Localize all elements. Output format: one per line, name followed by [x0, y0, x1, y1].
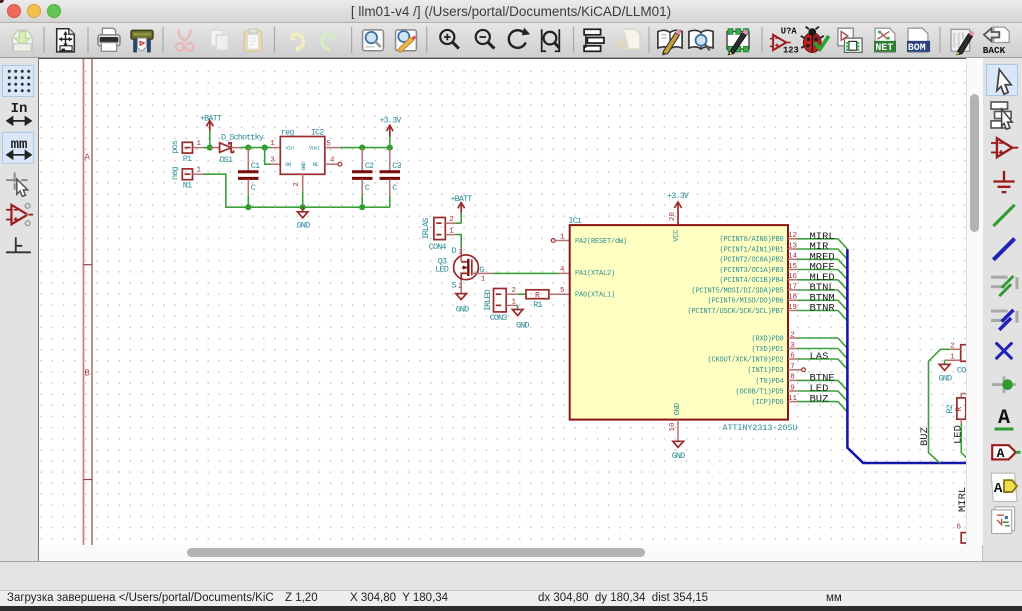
power +BATT (left) — [200, 113, 222, 147]
svg-text:C2: C2 — [365, 161, 374, 171]
capacitor C2 — [352, 148, 374, 195]
wire N1 to rail — [203, 174, 390, 207]
svg-text:(RXD)PD0: (RXD)PD0 — [751, 335, 783, 343]
IC1 pin 3 PD1 — [751, 342, 797, 354]
svg-text:VCC: VCC — [673, 230, 681, 242]
wire PB0 to bus — [798, 239, 848, 249]
svg-text:LAS: LAS — [810, 351, 829, 363]
svg-text:A: A — [994, 481, 1003, 497]
svg-text:1: 1 — [950, 354, 955, 362]
svg-text:S: S — [452, 281, 457, 291]
svg-text:A: A — [998, 407, 1011, 430]
IC1 pin 7 PD3 — [747, 363, 797, 375]
svg-text:P1: P1 — [183, 154, 192, 164]
sheet border tick 1 — [84, 264, 93, 266]
svg-text:GND: GND — [516, 320, 529, 330]
power +3.3V (top) — [379, 115, 402, 147]
svg-text:GND: GND — [674, 403, 682, 415]
svg-text:neg: neg — [170, 167, 180, 180]
svg-text:BOM: BOM — [908, 42, 926, 53]
svg-text:19: 19 — [788, 304, 797, 312]
svg-text:BUZ: BUZ — [919, 427, 931, 446]
right toolbar — [982, 58, 1022, 561]
svg-text:U?A: U?A — [781, 27, 798, 37]
svg-text:20: 20 — [669, 211, 677, 221]
svg-text:+BATT: +BATT — [200, 113, 222, 123]
ground symbol (CON5) — [939, 360, 952, 383]
svg-text:1: 1 — [197, 167, 202, 175]
microcontroller IC1 ATTINY2313 — [569, 216, 798, 433]
svg-text:18: 18 — [788, 294, 797, 302]
svg-text:(ICP)PD6: (ICP)PD6 — [751, 399, 783, 407]
svg-text:6: 6 — [790, 352, 795, 360]
svg-text:3: 3 — [270, 157, 275, 165]
wire C2 to rail — [361, 195, 363, 207]
svg-text:(INT1)PD3: (INT1)PD3 — [747, 367, 783, 375]
svg-text:B: B — [85, 369, 91, 379]
wire IC2 Vout — [340, 147, 390, 149]
connector N1 — [170, 167, 203, 191]
svg-text:1: 1 — [481, 275, 486, 283]
svg-text:1: 1 — [449, 228, 454, 236]
wire C1 to rail — [247, 195, 249, 207]
wire PD4 to bus — [798, 380, 848, 390]
IC1 pin1 reset stub — [551, 239, 569, 243]
scrollbars — [966, 58, 983, 545]
junction C1 top — [245, 145, 251, 151]
svg-text:DS1: DS1 — [220, 155, 233, 165]
wire R2 to bus (LED net) — [961, 424, 971, 463]
svg-text:(TXD)PD1: (TXD)PD1 — [751, 346, 783, 354]
IC1 pin 16 PB4 — [719, 273, 797, 285]
junction at P1/+BATT — [207, 145, 213, 151]
svg-text:5: 5 — [560, 287, 565, 295]
svg-text:1: 1 — [197, 140, 202, 148]
svg-text:C: C — [365, 183, 370, 193]
capacitor C1 — [238, 148, 260, 195]
svg-text:pos: pos — [170, 140, 180, 153]
svg-text:+3.3V: +3.3V — [379, 115, 402, 125]
canvas — [39, 59, 966, 546]
diode DS1 D_Schottky — [210, 133, 264, 165]
svg-text:3: 3 — [458, 249, 463, 257]
svg-text:reg: reg — [281, 127, 294, 137]
power +BATT (middle) — [450, 194, 472, 223]
capacitor C3 — [380, 148, 402, 196]
svg-text:(PCINT3/OC1A)PB3: (PCINT3/OC1A)PB3 — [719, 267, 783, 275]
resistor R2 — [945, 394, 966, 425]
IC1 pin 13 PB1 — [719, 242, 797, 254]
wire P1 to junction — [203, 147, 210, 149]
svg-text:GND: GND — [297, 220, 310, 230]
sheet border line outer — [83, 59, 85, 545]
svg-text:CON3: CON3 — [490, 313, 508, 323]
wire PB2 to bus — [798, 259, 848, 269]
regulator IC2 — [270, 127, 342, 191]
svg-text:1: 1 — [560, 233, 565, 241]
svg-text:(PCINT0/AIN0)PB0: (PCINT0/AIN0)PB0 — [719, 236, 783, 244]
svg-text:BUZ: BUZ — [810, 394, 829, 406]
junction rail C2 — [359, 204, 365, 210]
junction ON branch — [262, 145, 268, 151]
wire to IC2 ON pin — [265, 148, 271, 165]
wire CON5 pin2 to bus (BUZ net) — [929, 349, 950, 463]
svg-text:MIRL: MIRL — [957, 487, 966, 512]
svg-text:R1: R1 — [533, 300, 542, 310]
svg-text:ATTINY2313-20SU: ATTINY2313-20SU — [722, 423, 797, 433]
wire PB1 to bus — [798, 249, 848, 259]
sheet border tick 2 — [84, 479, 93, 481]
svg-text:14: 14 — [788, 253, 798, 261]
transistor Q3 — [435, 246, 486, 291]
svg-text:GND: GND — [672, 451, 685, 461]
svg-text:4: 4 — [330, 157, 335, 165]
svg-text:D: D — [452, 246, 457, 256]
svg-text:(PCINT1/AIN1)PB1: (PCINT1/AIN1)PB1 — [719, 246, 783, 254]
svg-text:(PCINT7/USCK/SCK/SCL)PB7: (PCINT7/USCK/SCK/SCL)PB7 — [687, 308, 783, 316]
ground symbol (IC1 GND) — [669, 420, 685, 461]
svg-text:13: 13 — [788, 242, 798, 250]
svg-text:GND: GND — [939, 374, 952, 384]
svg-text:11: 11 — [788, 395, 798, 403]
svg-text:12: 12 — [788, 232, 797, 240]
svg-text:2: 2 — [790, 331, 795, 339]
wire Q3 gate to IC1 PA1 — [479, 272, 494, 274]
svg-text:8: 8 — [790, 374, 795, 382]
junction rail GND — [300, 204, 306, 210]
svg-text:D_Schottky: D_Schottky — [221, 133, 264, 143]
svg-text:CON: CON — [957, 366, 966, 376]
resistor R1 — [526, 290, 549, 310]
left toolbar — [0, 58, 39, 561]
svg-text:(PCINT2/OC0A)PB2: (PCINT2/OC0A)PB2 — [719, 257, 783, 265]
svg-text:(OC0B/T1)PD5: (OC0B/T1)PD5 — [735, 388, 783, 396]
junction C2 top — [359, 145, 365, 151]
svg-text:(PCINT4/OC1B)PB4: (PCINT4/OC1B)PB4 — [719, 277, 783, 285]
svg-text:NET: NET — [875, 42, 893, 53]
svg-text:(PCINT6/MISO/DO)PB6: (PCINT6/MISO/DO)PB6 — [707, 298, 783, 306]
svg-text:R2: R2 — [945, 404, 955, 413]
wire IC2 GND down — [302, 191, 304, 207]
bus (blue) — [847, 249, 966, 463]
svg-text:In: In — [11, 101, 28, 117]
IC1 pin 15 PB3 — [719, 263, 797, 275]
connector P1 — [170, 140, 203, 164]
svg-text:16: 16 — [788, 273, 798, 281]
svg-text:10: 10 — [669, 422, 677, 432]
wire Q3 source down — [460, 280, 462, 294]
IC1 pin 11 PD6 — [751, 395, 797, 407]
svg-text:3: 3 — [790, 342, 795, 350]
wire PD0 to bus — [798, 338, 848, 348]
svg-text:LED: LED — [435, 265, 448, 275]
svg-text:9: 9 — [790, 384, 795, 392]
wire C3 to rail corner — [389, 196, 391, 207]
sheet border line inner — [91, 59, 93, 545]
svg-text:IRLAS: IRLAS — [421, 218, 431, 240]
wire PB6 to bus — [798, 300, 848, 310]
svg-text:R: R — [955, 407, 964, 412]
svg-text:ON: ON — [285, 161, 291, 168]
connector CON5 (right edge) — [945, 343, 971, 376]
svg-text:A: A — [85, 153, 91, 163]
status bars — [0, 561, 1022, 590]
svg-text:N1: N1 — [183, 181, 192, 191]
svg-text:2: 2 — [512, 287, 517, 295]
wire PD1 to bus — [798, 349, 848, 359]
svg-text:PA1(XTAL2): PA1(XTAL2) — [575, 270, 615, 278]
connector CON4 — [421, 216, 456, 252]
svg-text:(PCINT5/MOSI/DI/SDA)PB5: (PCINT5/MOSI/DI/SDA)PB5 — [691, 287, 783, 295]
IC1 pin 2 PD0 — [751, 331, 797, 343]
svg-text:2: 2 — [950, 343, 955, 351]
title bar — [0, 0, 1022, 23]
svg-text:GND: GND — [456, 305, 469, 315]
svg-text:Vin: Vin — [285, 145, 293, 152]
svg-text:2: 2 — [293, 182, 301, 187]
IC1 pin 8 PD4 — [755, 374, 797, 386]
ground symbol (Q3) — [456, 294, 469, 315]
top toolbar — [0, 23, 1022, 58]
wire CON4 pin1 to Q3 drain — [456, 235, 461, 247]
wire PB4 to bus — [798, 280, 848, 290]
svg-text:PA2(RESET/dW): PA2(RESET/dW) — [575, 238, 627, 246]
wire CON3 pin2 to R1 — [518, 293, 526, 295]
junction +3.3V — [387, 145, 393, 151]
wire PB5 to bus — [798, 290, 848, 300]
power +3.3V (IC1 VCC) — [667, 191, 690, 225]
IC1 pin 19 PB7 — [687, 304, 797, 316]
svg-text:(T0)PD4: (T0)PD4 — [755, 378, 783, 386]
svg-text:CON4: CON4 — [429, 242, 447, 252]
svg-text:2: 2 — [449, 216, 454, 224]
svg-text:123: 123 — [783, 45, 799, 55]
ground symbol (CON3) — [512, 305, 529, 330]
svg-text:+3.3V: +3.3V — [667, 191, 690, 201]
IC1 pin 17 PB5 — [691, 283, 797, 295]
wire CON4 pin2 — [456, 222, 461, 224]
wire R1 to IC1 PA0 — [549, 293, 570, 295]
svg-text:7: 7 — [790, 363, 795, 371]
svg-text:15: 15 — [788, 263, 798, 271]
no-connect stub PD3 — [798, 368, 806, 372]
wire PD5 to bus — [798, 391, 848, 401]
svg-text:IC2: IC2 — [311, 127, 324, 137]
wire PD2 to bus — [798, 359, 848, 369]
svg-text:4: 4 — [560, 266, 565, 274]
IC1 pin 18 PB6 — [707, 294, 797, 306]
svg-text:1: 1 — [512, 298, 517, 306]
svg-text:C: C — [251, 183, 256, 193]
wire PD6 to bus — [798, 402, 848, 412]
wire PB3 to bus — [798, 270, 848, 280]
wire DS1 to IC2 Vin — [240, 147, 271, 149]
svg-text:IC1: IC1 — [569, 216, 582, 226]
IC1 pin 6 PD2 — [707, 352, 797, 364]
connector fragment (bottom right) — [961, 533, 966, 543]
svg-text:BTNR: BTNR — [810, 303, 836, 315]
junction rail C1 — [245, 204, 251, 210]
svg-text:C1: C1 — [251, 161, 260, 171]
svg-text:Vout: Vout — [309, 145, 320, 152]
IC1 pin 14 PB2 — [719, 253, 797, 265]
connector CON3 — [483, 287, 518, 323]
svg-text:PA0(XTAL1): PA0(XTAL1) — [575, 292, 615, 300]
svg-text:IRLED: IRLED — [483, 289, 493, 311]
IC1 pin 9 PD5 — [735, 384, 797, 396]
svg-text:LED: LED — [952, 425, 964, 444]
svg-text:17: 17 — [788, 283, 797, 291]
svg-text:C: C — [392, 183, 397, 193]
ground symbol (power rail) — [297, 207, 310, 230]
svg-text:(CKOUT/XCK/INT0)PD2: (CKOUT/XCK/INT0)PD2 — [707, 356, 783, 364]
svg-text:BACK: BACK — [983, 45, 1006, 56]
svg-text:GND: GND — [300, 161, 307, 170]
wire PB7 to bus — [798, 311, 848, 321]
svg-text:6: 6 — [957, 524, 962, 532]
IC1 pin 12 PB0 — [719, 232, 797, 244]
svg-text:A: A — [997, 446, 1005, 461]
svg-text:1: 1 — [270, 140, 275, 148]
svg-text:C3: C3 — [392, 161, 401, 171]
